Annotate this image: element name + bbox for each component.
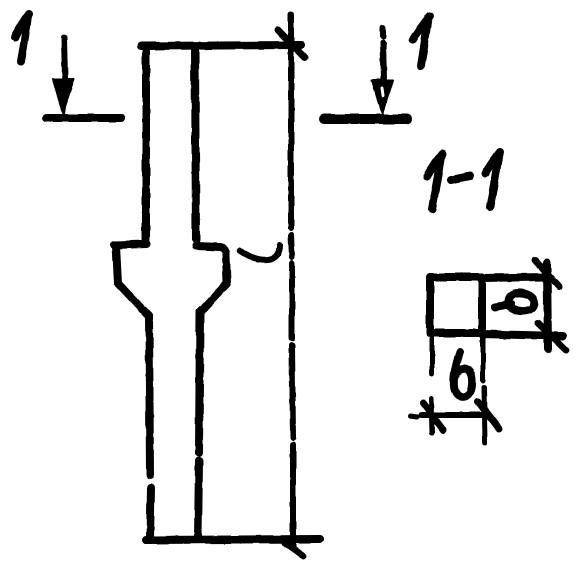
section 1-1: right cell (dimension b box) (482, 263, 563, 349)
section title 1-1 (427, 152, 500, 209)
section 1-1: square cross-section outline (left cell) (430, 277, 482, 333)
dimension extension line l (vertical, dashed hand strokes) (291, 15, 293, 547)
pile elevation: upper shaft right edge (195, 48, 196, 240)
label b (rotated, vertical dimension) (495, 293, 534, 311)
dimension tick at bottom of l (285, 543, 303, 556)
section mark numeral 1 (top right) (413, 16, 430, 66)
pile elevation: bottom line (146, 539, 320, 540)
section cut arrow (right, dashed shaft) (372, 28, 393, 114)
pile elevation: top cap line (141, 45, 301, 46)
pile elevation: right shoulder (196, 246, 227, 312)
dimension tick top-right of b (vertical) (535, 260, 559, 287)
pile elevation: lower shaft left edge (with hand gap) (149, 316, 151, 538)
dimension tick right of b (horizontal) (478, 402, 499, 429)
section cut arrow (left) (53, 38, 74, 114)
section mark numeral 1 (top left) (15, 14, 29, 62)
label b (upright, horizontal dimension) (454, 352, 472, 397)
dimension tick at top of l (278, 30, 305, 58)
dimension line b (horizontal, below square) (411, 415, 488, 417)
section cut plane bar (left) (46, 114, 121, 122)
pile elevation: left shoulder (114, 244, 149, 316)
label l (length) (240, 245, 280, 260)
dimension tick left of b (horizontal) (423, 403, 443, 430)
pile elevation: lower shaft right edge (with hand gap) (198, 312, 200, 538)
section cut plane bar (right) (324, 114, 407, 124)
extension lines below square (horizontal dimension b) (431, 336, 485, 443)
dimension tick bottom-right of b (vertical) (538, 323, 566, 350)
pile elevation: upper shaft left edge (142, 48, 150, 240)
